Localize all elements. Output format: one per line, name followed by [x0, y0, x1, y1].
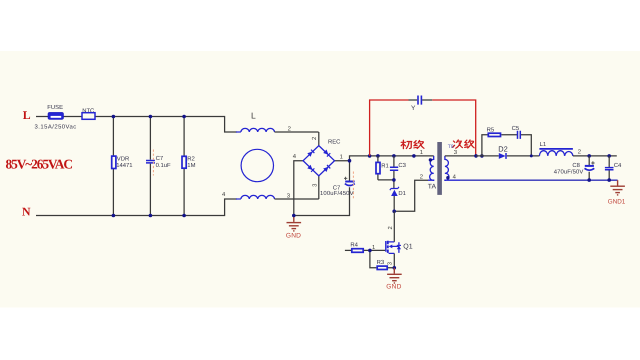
svg-text:L: L — [23, 108, 31, 122]
capacitor C7 100uF/450V — [320, 161, 355, 199]
wire secondary top — [476, 155, 539, 157]
svg-text:T8: T8 — [448, 144, 454, 150]
transformer TA — [420, 142, 476, 195]
svg-text:FUSE: FUSE — [47, 104, 63, 111]
svg-text:2: 2 — [387, 226, 394, 229]
bridge rectifier REC — [293, 132, 350, 216]
wire R1 C3 bottom — [378, 180, 394, 188]
svg-text:D1: D1 — [398, 190, 406, 197]
svg-text:GND: GND — [286, 232, 301, 239]
svg-text:C7: C7 — [156, 155, 164, 162]
inductor L1 — [539, 141, 581, 156]
fuse FUSE — [35, 104, 77, 130]
diode D2 — [498, 144, 507, 159]
svg-text:TA: TA — [428, 184, 437, 191]
ground GND (bridge) — [287, 216, 302, 231]
svg-text:C3: C3 — [398, 162, 406, 169]
thermistor NTC — [82, 107, 95, 119]
wire negative rail — [294, 187, 350, 215]
junction dots DC rail — [348, 154, 416, 162]
svg-text:VDR: VDR — [117, 156, 129, 163]
label 次级 (secondary) — [453, 140, 474, 148]
wire secondary bottom rail — [460, 179, 618, 181]
svg-text:2: 2 — [420, 174, 423, 181]
resistor R5 — [487, 126, 501, 136]
resistor R3 — [368, 249, 396, 270]
svg-text:2: 2 — [288, 125, 291, 132]
capacitor C4 — [605, 156, 622, 180]
transformer core — [437, 142, 442, 195]
svg-text:85V~265VAC: 85V~265VAC — [6, 156, 74, 171]
capacitor C7 0.1uF — [146, 117, 171, 216]
svg-text:Y: Y — [411, 105, 416, 112]
svg-text:1: 1 — [340, 153, 343, 160]
resistor R1 — [376, 156, 389, 180]
wire L input — [36, 117, 237, 133]
resistor R2 — [182, 117, 196, 216]
svg-text:2: 2 — [578, 148, 581, 155]
svg-text:R1: R1 — [381, 162, 389, 169]
svg-text:C8: C8 — [572, 162, 580, 169]
secondary winding — [445, 156, 460, 180]
common-mode choke L — [222, 111, 319, 200]
svg-text:R4: R4 — [350, 242, 358, 249]
junction secondary output node — [474, 154, 484, 158]
capacitor C5 — [512, 125, 521, 139]
svg-text:GND: GND — [386, 283, 401, 290]
transistor Q1 — [372, 211, 413, 267]
resistor R4 — [345, 242, 385, 253]
svg-text:1: 1 — [372, 244, 375, 251]
svg-text:R3: R3 — [377, 259, 385, 266]
svg-text:3.15A/250Vac: 3.15A/250Vac — [35, 123, 77, 130]
svg-text:14471: 14471 — [116, 162, 132, 169]
wire red Y loop — [370, 100, 476, 156]
svg-text:1M: 1M — [187, 162, 195, 169]
svg-text:GND1: GND1 — [608, 198, 626, 205]
svg-text:L1: L1 — [540, 141, 547, 148]
svg-text:D2: D2 — [498, 144, 507, 153]
primary winding — [428, 156, 434, 180]
svg-text:REC: REC — [328, 139, 341, 146]
junction dots input rails — [112, 115, 186, 218]
zener diode D1 — [390, 187, 406, 212]
capacitor Y — [409, 96, 433, 112]
svg-text:2: 2 — [311, 137, 318, 140]
svg-text:0.1uF: 0.1uF — [156, 162, 171, 169]
snubber wires — [482, 135, 531, 156]
wire N input — [36, 199, 237, 216]
svg-text:Q1: Q1 — [403, 243, 412, 250]
ground GND1 — [610, 180, 625, 195]
wire output rail — [573, 155, 617, 157]
capacitor C3 — [390, 156, 407, 180]
svg-text:100uF/450V: 100uF/450V — [320, 190, 354, 197]
wire DC+ rail — [350, 156, 434, 161]
svg-text:N: N — [22, 205, 31, 219]
capacitor C8 470uF/50V — [554, 156, 595, 180]
label 初级 (primary) — [401, 140, 424, 149]
wire primary switch node — [394, 180, 428, 211]
ground GND (Q1 source) — [387, 268, 402, 283]
svg-text:C5: C5 — [512, 125, 520, 132]
svg-text:C4: C4 — [614, 162, 622, 169]
varistor VDR — [112, 117, 133, 216]
svg-text:R2: R2 — [187, 156, 195, 163]
svg-text:L: L — [251, 111, 256, 121]
svg-text:470uF/50V: 470uF/50V — [554, 169, 584, 176]
svg-text:1: 1 — [420, 149, 423, 156]
